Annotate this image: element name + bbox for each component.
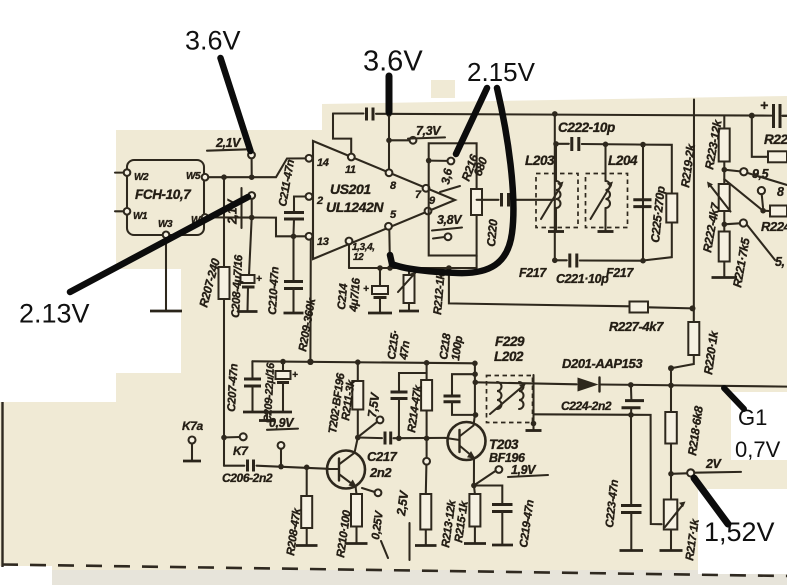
- svg-text:C221·10p: C221·10p: [556, 272, 609, 286]
- capacitor electrolytic top right: [760, 97, 787, 128]
- svg-text:7,3V: 7,3V: [416, 124, 442, 138]
- svg-text:14: 14: [317, 157, 329, 169]
- wire main detector line: [475, 382, 576, 384]
- testpoint 9,5: [724, 167, 787, 185]
- wire R218 vertical: [670, 368, 672, 412]
- node R224: [760, 208, 766, 214]
- wire tap to C224 and wiper: [534, 414, 662, 524]
- svg-text:F217: F217: [606, 266, 634, 280]
- resistor R22x horizontal: [752, 116, 787, 163]
- wire W2 stub: [115, 172, 124, 174]
- node R209 rail: [307, 359, 313, 365]
- resistor R208-47k: [285, 467, 317, 556]
- svg-text:W1: W1: [133, 211, 148, 222]
- capacitor C209-22u electrolytic: [262, 362, 298, 424]
- wire W4 to pin13: [208, 217, 305, 236]
- filter block L203 L204: [552, 111, 646, 263]
- svg-text:F229: F229: [495, 334, 525, 349]
- wire T202 collector bus: [358, 436, 382, 439]
- trimmer R212-1k: [398, 268, 448, 315]
- node R220 bottom: [668, 365, 674, 371]
- capacitor C217-2n2: [367, 432, 445, 481]
- node K7: [221, 435, 227, 441]
- node W4-testpoint: [249, 215, 255, 221]
- node C211 bottom: [291, 234, 297, 240]
- node diode out: [628, 382, 634, 388]
- node C214: [377, 265, 383, 271]
- capacitor C222-10p: [558, 120, 615, 151]
- svg-text:11: 11: [345, 164, 356, 176]
- diode D201-AAP153: [562, 356, 787, 392]
- svg-text:+: +: [256, 274, 262, 285]
- ground C207 C209: [243, 412, 292, 421]
- svg-text:C220: C220: [484, 218, 500, 247]
- wire L202 column: [474, 363, 476, 415]
- callout line 2.13V: [70, 197, 248, 292]
- svg-text:2: 2: [316, 195, 323, 207]
- capacitor C206-2n2: [222, 460, 329, 486]
- callout line G1: [724, 388, 744, 409]
- testpoint 7,5V: [359, 391, 383, 437]
- wire pin8 drop: [388, 114, 390, 169]
- testpoint 2V: [671, 457, 741, 477]
- svg-text:+: +: [363, 284, 369, 295]
- testpoint 8: [758, 185, 784, 207]
- svg-text:2V: 2V: [705, 457, 723, 471]
- node rail 3.6V: [386, 111, 392, 117]
- resistor R219-2k: [643, 142, 698, 261]
- capacitor C223-47n: [604, 415, 643, 551]
- svg-text:3,8V: 3,8V: [437, 213, 463, 227]
- testpoint 2,1V top: [248, 152, 255, 175]
- resistor R224: [761, 206, 787, 235]
- op-amp US201 UL1242N: [306, 141, 455, 263]
- node pin5: [387, 265, 393, 271]
- resistor R223-12k: [702, 116, 730, 171]
- capacitor C211-47n: [277, 159, 305, 234]
- wire R222 tap to 8: [724, 179, 763, 211]
- node T203 emitter: [471, 483, 477, 489]
- node 7,3V: [386, 138, 392, 144]
- svg-text:C206-2n2: C206-2n2: [222, 471, 273, 485]
- svg-text:13: 13: [317, 236, 329, 248]
- testpoint 3,8V: [432, 213, 463, 240]
- capacitor C214 electrolytic: [336, 268, 392, 313]
- node bus corner: [446, 265, 452, 271]
- node C224 bottom: [628, 412, 634, 418]
- border dashed line: [2, 565, 787, 577]
- transistor T202 BF196: [327, 438, 365, 495]
- wire right supply vertical: [693, 100, 695, 323]
- capacitor C220: [477, 193, 555, 247]
- capacitor C224-2n2: [561, 385, 644, 415]
- coil L204 dashed box: [586, 142, 639, 232]
- node R214 bottom: [424, 436, 430, 442]
- wire top rail: [333, 114, 787, 154]
- wire W1 stub: [115, 210, 124, 212]
- resistor R220-1k: [673, 322, 721, 375]
- label C218 100p: [438, 332, 465, 361]
- svg-text:W2: W2: [134, 172, 149, 183]
- wire W5 to pin14: [208, 158, 305, 177]
- testpoint 1,9V: [476, 463, 548, 484]
- box around R216: [429, 143, 477, 255]
- svg-text:W5: W5: [186, 171, 201, 182]
- node 2V: [668, 471, 674, 477]
- resistor R207-240: [196, 177, 229, 466]
- svg-text:FCH-10,7: FCH-10,7: [135, 187, 192, 202]
- svg-text:W3: W3: [158, 219, 173, 230]
- resistor R216-680: [459, 152, 491, 215]
- svg-text:2,1V: 2,1V: [215, 136, 242, 150]
- node R211 rail: [355, 359, 361, 365]
- callout hook 2.15V: [390, 88, 513, 273]
- resistor R214-47k: [406, 363, 432, 439]
- testpoint 0,9V: [267, 416, 298, 467]
- node C215 bottom: [396, 436, 402, 442]
- svg-text:L204: L204: [608, 153, 638, 168]
- svg-text:C210-47n: C210-47n: [267, 266, 282, 315]
- node C209: [280, 359, 286, 365]
- node C218 top: [472, 371, 478, 377]
- svg-text:12: 12: [353, 252, 364, 263]
- resistor R218-6k8: [665, 405, 706, 474]
- testpoint 5: [724, 219, 784, 269]
- wire pin5 bottom bus: [349, 230, 630, 307]
- node 0,9V base wire: [278, 464, 284, 470]
- resistor R221-7k5: [712, 224, 753, 288]
- svg-text:R227-4k7: R227-4k7: [609, 319, 664, 334]
- svg-text:K7: K7: [233, 444, 249, 458]
- svg-text:D201-AAP153: D201-AAP153: [562, 356, 643, 371]
- filter FCH-10.7: [124, 160, 209, 238]
- svg-text:UL1242N: UL1242N: [326, 199, 384, 215]
- terminal K7: [227, 433, 250, 458]
- testpoint 0,25V: [362, 488, 388, 558]
- trimmer R217-1k: [660, 474, 702, 562]
- ground W3: [150, 238, 182, 311]
- svg-text:C207-47n: C207-47n: [226, 363, 241, 412]
- callout line 3.6V middle: [386, 76, 393, 112]
- node R227 right: [690, 305, 696, 311]
- capacitor C215-47n: [386, 329, 427, 438]
- resistor R215-1k: [464, 486, 486, 544]
- svg-text:T203: T203: [489, 437, 519, 452]
- capacitor C221-10p: [556, 254, 609, 287]
- svg-text:5,: 5,: [775, 255, 785, 269]
- svg-text:US201: US201: [330, 181, 371, 197]
- svg-text:C217: C217: [367, 449, 398, 464]
- svg-text:C222-10p: C222-10p: [558, 120, 615, 135]
- wire C206 to base: [224, 465, 244, 467]
- capacitor C218-100p tank: [444, 374, 476, 415]
- label F229 L202: [494, 334, 525, 364]
- node R214 rail: [424, 360, 430, 366]
- capacitor C207-47n: [226, 361, 261, 412]
- capacitor C219-47n: [474, 486, 537, 549]
- svg-text:2.13V: 2.13V: [19, 299, 90, 329]
- svg-text:0,7V: 0,7V: [735, 437, 781, 462]
- label 2,1V top: [207, 136, 248, 151]
- svg-text:2.15V: 2.15V: [467, 57, 536, 87]
- svg-text:C224-2n2: C224-2n2: [561, 399, 612, 413]
- transistor T203 BF196: [445, 415, 526, 486]
- node W5-testpoint: [249, 174, 255, 180]
- testpoint 7,3V: [389, 124, 445, 144]
- svg-text:L202: L202: [494, 349, 524, 364]
- testpoint 2,1V vertical: [226, 188, 256, 228]
- node R208 base wire: [304, 465, 310, 471]
- terminal K7a: [182, 419, 204, 461]
- node main wire R218: [668, 383, 674, 389]
- testpoint 3,6: [429, 158, 460, 192]
- coil L202 dashed box: [487, 376, 533, 423]
- node R211 bottom: [355, 435, 361, 441]
- svg-text:2n2: 2n2: [369, 465, 392, 480]
- node main wire left: [473, 380, 479, 386]
- svg-text:3.6V: 3.6V: [185, 26, 241, 56]
- svg-text:R22: R22: [764, 132, 787, 147]
- capacitor C225-270p: [633, 186, 668, 244]
- wire supply rail mid: [252, 361, 475, 363]
- node W5-R207: [221, 174, 227, 180]
- node R222 bottom: [722, 222, 728, 228]
- node top rail right: [749, 113, 755, 119]
- node R223 bottom: [722, 167, 728, 173]
- node L202 rail: [472, 361, 478, 367]
- svg-text:L203: L203: [525, 153, 555, 168]
- svg-text:8: 8: [777, 185, 784, 199]
- resistor R210-100: [335, 494, 367, 558]
- callout line 2.15V straight: [456, 88, 487, 154]
- capacitor C210-47n: [267, 236, 303, 315]
- svg-text:R224: R224: [761, 219, 787, 234]
- node box top-left: [426, 158, 432, 164]
- resistor R227-4k7: [609, 302, 693, 335]
- left frame border: [1, 402, 3, 567]
- svg-text:3.6V: 3.6V: [363, 46, 423, 78]
- capacitor top rail: [367, 108, 374, 121]
- wire L202 block right leg: [526, 375, 542, 431]
- callout line 1,52V: [694, 478, 728, 524]
- svg-text:+: +: [292, 370, 298, 381]
- resistor R211-3k: [327, 362, 363, 437]
- capacitor C208 electrolytic: [230, 218, 262, 319]
- trimmer R222-4k7: [700, 170, 730, 254]
- svg-text:+: +: [760, 97, 768, 113]
- wire R209-360k: [297, 240, 318, 362]
- testpoint 2,5V: [394, 438, 430, 560]
- svg-text:K7a: K7a: [182, 419, 204, 433]
- callout line 3.6V left: [221, 58, 251, 151]
- svg-text:F217: F217: [519, 266, 547, 280]
- coil L203 dashed box: [525, 141, 578, 231]
- resistor R213-12k: [415, 465, 471, 549]
- node T203 collector: [473, 412, 479, 418]
- svg-text:1,52V: 1,52V: [704, 517, 775, 547]
